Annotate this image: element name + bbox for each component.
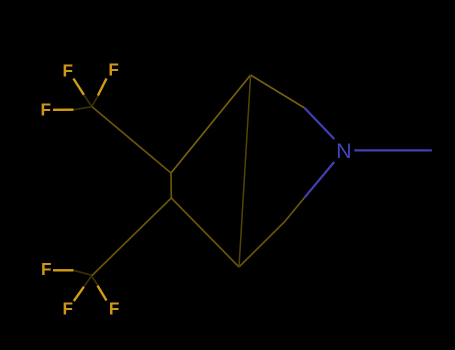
wire bond C3-C2 upper right (251, 75, 305, 108)
wire bond C7-F2 bright half (98, 79, 107, 96)
svg-text:F: F (62, 298, 73, 318)
wire bond C7-F1 inner dark half (83, 94, 92, 107)
wire bond C3-C6 bridge (239, 75, 251, 267)
svg-text:N: N (336, 139, 352, 163)
wire bond C5-C6 bottom vertex (171, 198, 239, 267)
wire bond C8(CF3 bottom carbon)-C5 ring (92, 198, 172, 276)
svg-text:F: F (41, 259, 52, 279)
wire bond C2-N blue (305, 108, 335, 139)
wire bond C7(CF3 top carbon)-C4 ring (92, 107, 171, 174)
wire bond C8-F5 bright half (74, 287, 84, 301)
svg-text:F: F (62, 60, 73, 80)
wire bond C8-F6 bright half (98, 286, 107, 301)
svg-text:F: F (40, 99, 51, 119)
wire bond C8-F6 inner dark half (92, 276, 100, 287)
svg-text:F: F (108, 59, 119, 79)
wire bond C8-F4 bright (53, 269, 74, 271)
wire bond C7-F1 bright half (73, 79, 84, 95)
wire bond C7-F3 bright (53, 108, 74, 111)
wire bond C8-F5 inner dark half (83, 276, 92, 288)
wire bond N-C9 blue half (305, 162, 335, 197)
wire bond N-CH3 methyl (354, 149, 432, 151)
wire bond C6-C9 lower right (239, 222, 285, 268)
svg-text:F: F (109, 298, 120, 318)
wire bond C9-N olive half (285, 197, 305, 221)
wire bond C7-F2 inner dark half (92, 94, 100, 107)
wire bond C4-C5 ring edge (170, 173, 172, 198)
wire bond C4-C3 apex (171, 75, 251, 173)
